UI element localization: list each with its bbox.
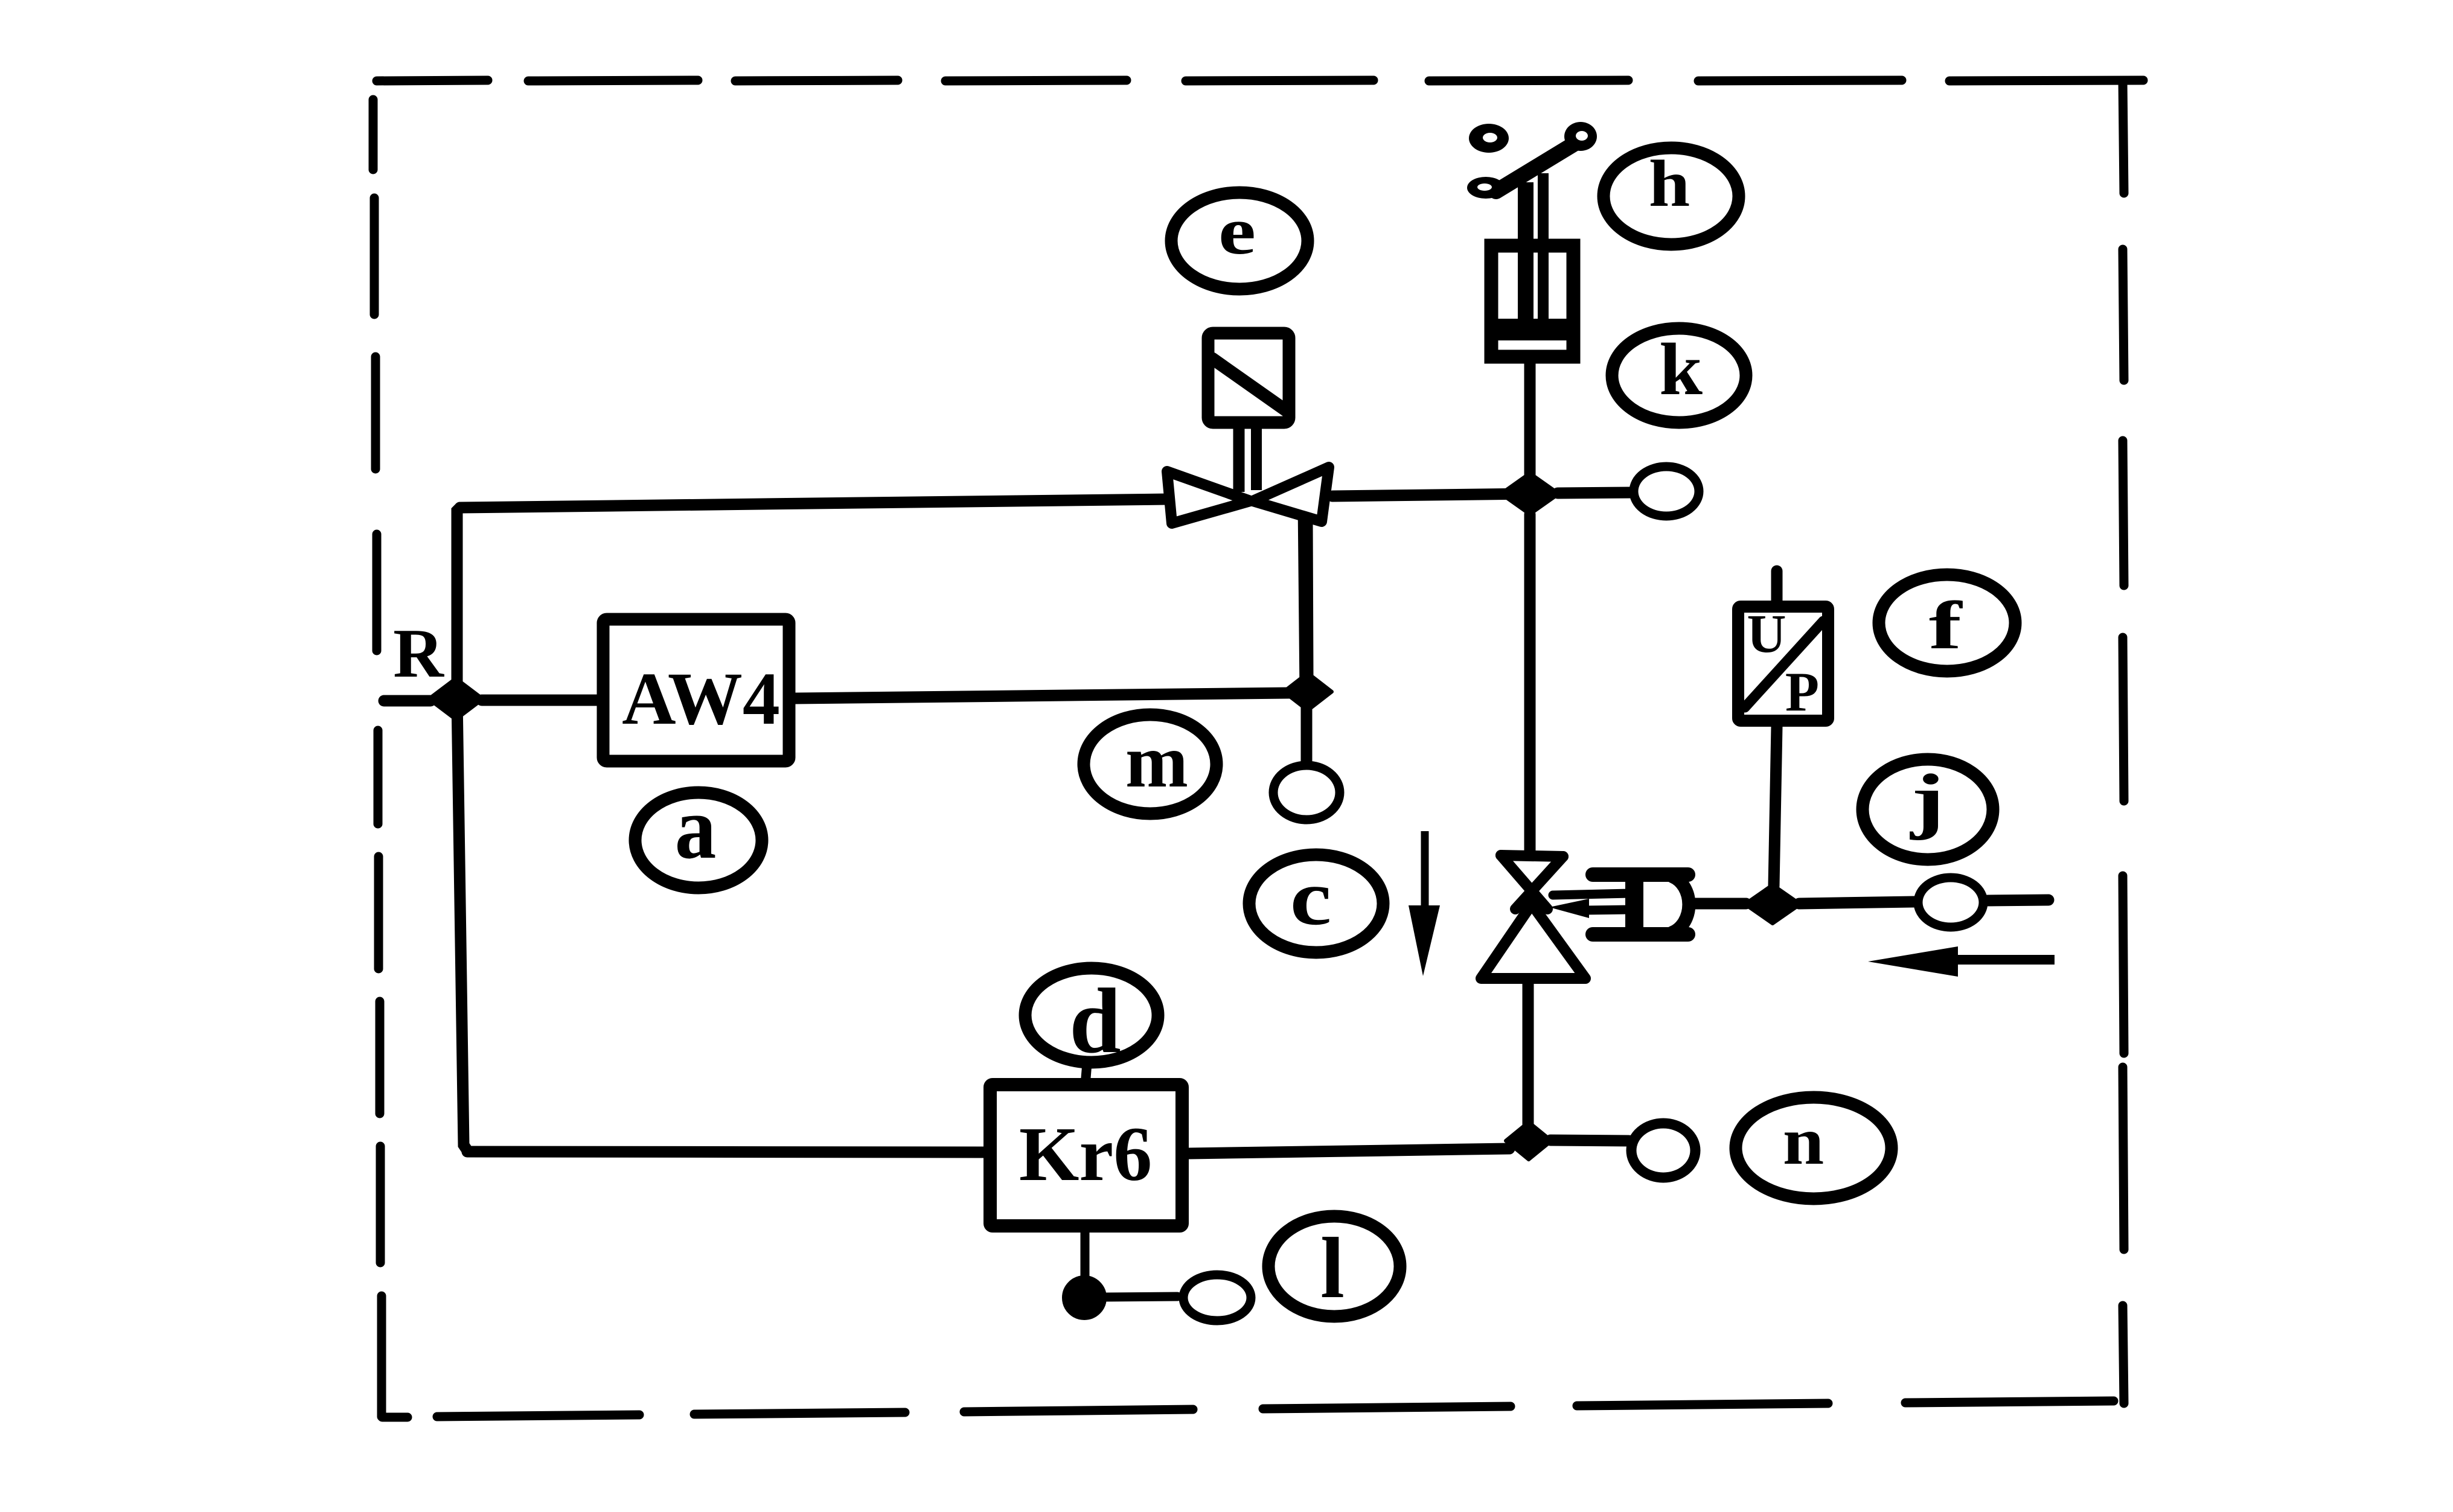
svg-text:a: a: [675, 778, 717, 877]
svg-text:n: n: [1783, 1104, 1825, 1179]
svg-text:e: e: [1218, 194, 1256, 269]
svg-text:l: l: [1320, 1220, 1345, 1316]
svg-text:k: k: [1659, 329, 1703, 411]
svg-text:h: h: [1649, 147, 1690, 221]
svg-text:m: m: [1125, 720, 1188, 803]
svg-text:f: f: [1929, 588, 1963, 663]
svg-text:j: j: [1909, 759, 1945, 841]
svg-text:U: U: [1747, 604, 1786, 664]
svg-text:d: d: [1069, 970, 1121, 1073]
svg-text:Kr6: Kr6: [1019, 1111, 1152, 1197]
svg-text:AW4: AW4: [622, 657, 780, 740]
svg-text:R: R: [393, 615, 444, 692]
svg-text:P: P: [1785, 661, 1819, 723]
svg-text:c: c: [1290, 853, 1332, 941]
